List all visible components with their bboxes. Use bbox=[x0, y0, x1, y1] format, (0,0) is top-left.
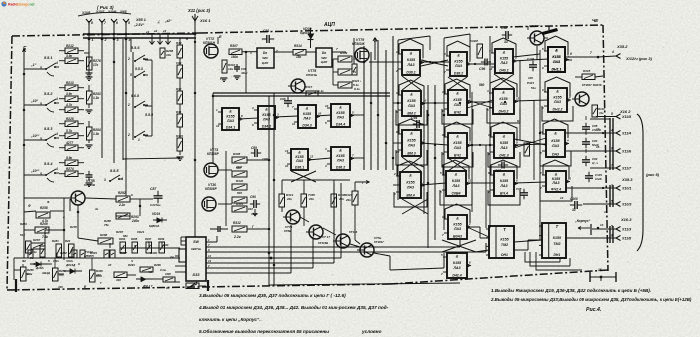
svg-text:75к: 75к bbox=[104, 223, 109, 227]
svg-text:КТ315В: КТ315В bbox=[84, 183, 96, 187]
svg-text:Х/12/ч (рис 3): Х/12/ч (рис 3) bbox=[625, 56, 653, 61]
svg-text:условно: условно bbox=[361, 329, 382, 334]
svg-text:2.2к: 2.2к bbox=[118, 203, 125, 207]
svg-text:ЦАП: ЦАП bbox=[321, 60, 328, 64]
svg-text:4.Вывод 01 микросхем Д34, Д3: 4.Вывод 01 микросхем Д34, Д36, Д38... Д4… bbox=[198, 305, 389, 310]
svg-text:КД503А: КД503А bbox=[149, 224, 159, 228]
svg-text:„10²“: „10²“ bbox=[30, 134, 40, 138]
svg-text:Е: Е bbox=[219, 34, 222, 39]
svg-text:R312: R312 bbox=[233, 221, 241, 225]
svg-text:R269: R269 bbox=[40, 222, 48, 226]
svg-text:11: 11 bbox=[468, 179, 471, 183]
svg-text:&: & bbox=[503, 51, 506, 55]
svg-text:8: 8 bbox=[611, 234, 613, 238]
svg-text:17к: 17к bbox=[93, 63, 99, 67]
svg-text:С87: С87 bbox=[150, 187, 157, 191]
svg-text:150к: 150к bbox=[231, 55, 238, 59]
svg-text:К155: К155 bbox=[407, 99, 416, 103]
svg-text:VТ 17: VТ 17 bbox=[322, 235, 330, 239]
svg-text:ТМ2: ТМ2 bbox=[553, 242, 560, 246]
svg-text:R307: R307 bbox=[120, 251, 127, 255]
svg-text:D34.4: D34.4 bbox=[336, 122, 345, 126]
svg-text:4: 4 bbox=[422, 180, 425, 184]
svg-text:К155: К155 bbox=[453, 98, 462, 102]
svg-text:33: 33 bbox=[572, 208, 576, 212]
svg-text:DH1: DH1 bbox=[553, 253, 560, 257]
svg-text:7: 7 bbox=[590, 51, 592, 55]
svg-text:12: 12 bbox=[310, 155, 314, 159]
svg-text:33: 33 bbox=[504, 40, 508, 44]
svg-text:2: 2 bbox=[468, 141, 471, 145]
svg-text:к2: к2 bbox=[154, 29, 158, 33]
svg-text:R340: R340 bbox=[236, 179, 244, 183]
svg-text:R270: R270 bbox=[70, 225, 77, 229]
svg-text:Х11/7: Х11/7 bbox=[621, 167, 632, 171]
svg-text:D38.2: D38.2 bbox=[454, 71, 463, 75]
svg-text:„Корпус“: „Корпус“ bbox=[574, 219, 591, 223]
svg-text:Х10/3: Х10/3 bbox=[621, 203, 631, 207]
svg-text:6: 6 bbox=[570, 52, 572, 56]
svg-text:&: & bbox=[265, 108, 268, 112]
svg-text:Х11/8: Х11/8 bbox=[621, 237, 631, 241]
svg-text:С98: С98 bbox=[501, 26, 507, 30]
svg-text:К155: К155 bbox=[500, 57, 509, 61]
svg-text:5.5.1: 5.5.1 bbox=[44, 56, 52, 60]
svg-text:0.047мк: 0.047мк bbox=[150, 203, 161, 207]
svg-text:С90: С90 bbox=[250, 195, 256, 199]
svg-text:R315: R315 bbox=[583, 69, 591, 73]
svg-text:R212: R212 bbox=[66, 44, 74, 48]
svg-text:R274: R274 bbox=[66, 167, 74, 171]
svg-text:910: 910 bbox=[248, 207, 253, 211]
svg-text:DН2.2: DН2.2 bbox=[553, 107, 563, 111]
svg-text:31к: 31к bbox=[599, 111, 604, 115]
svg-text:4: 4 bbox=[324, 164, 327, 168]
svg-text:1.3к: 1.3к bbox=[93, 132, 99, 136]
svg-text:ДМ.1 Г: ДМ.1 Г bbox=[142, 284, 153, 288]
svg-text:20к: 20к bbox=[338, 197, 344, 201]
svg-text:КП305Р: КП305Р bbox=[205, 187, 218, 191]
svg-text:ЛА3: ЛА3 bbox=[336, 158, 344, 162]
svg-text:3.9с: 3.9с bbox=[66, 92, 72, 96]
svg-text:R323: R323 bbox=[345, 193, 353, 197]
svg-text:R299: R299 bbox=[158, 237, 165, 241]
svg-text:ФЧ2.4: ФЧ2.4 bbox=[551, 187, 561, 191]
svg-text:R305: R305 bbox=[233, 152, 241, 156]
svg-text:UВ0ТЗв: UВ0ТЗв bbox=[191, 247, 201, 251]
svg-text:ВМ 3: ВМ 3 bbox=[407, 151, 415, 155]
svg-text:510: 510 bbox=[20, 233, 25, 237]
svg-text:Х16 2: Х16 2 bbox=[619, 109, 631, 114]
svg-text:С96: С96 bbox=[479, 67, 485, 71]
svg-text:16: 16 bbox=[598, 268, 602, 272]
svg-text:10: 10 bbox=[604, 210, 608, 214]
svg-text:ЛА3: ЛА3 bbox=[453, 146, 461, 150]
svg-text:R307: R307 bbox=[230, 44, 238, 48]
svg-text:ЛА3: ЛА3 bbox=[499, 184, 507, 188]
svg-text:3.9к: 3.9к bbox=[66, 54, 72, 58]
svg-text:R317: R317 bbox=[305, 85, 313, 89]
svg-text:КТ361Г R0216: КТ361Г R0216 bbox=[582, 83, 602, 87]
svg-text:2(...ч: 2(...ч bbox=[591, 161, 598, 165]
svg-text:R19: R19 bbox=[176, 41, 182, 45]
svg-text:R288: R288 bbox=[100, 233, 108, 237]
svg-text:D34.1: D34.1 bbox=[226, 125, 235, 129]
svg-text:„1“: „1“ bbox=[30, 63, 37, 67]
svg-text:VТ315Г: VТ315Г bbox=[529, 24, 540, 28]
svg-text:ЛА3: ЛА3 bbox=[551, 181, 559, 185]
svg-text:С94: С94 bbox=[411, 116, 417, 120]
svg-text:ЛА3: ЛА3 bbox=[453, 227, 461, 231]
svg-text:„10³“: „10³“ bbox=[30, 169, 40, 173]
svg-text:Ф2: Ф2 bbox=[22, 259, 26, 263]
svg-text:&: & bbox=[229, 110, 232, 114]
svg-text:D36.2: D36.2 bbox=[336, 165, 345, 169]
svg-text:560: 560 bbox=[479, 83, 485, 87]
svg-text:VD19: VD19 bbox=[152, 212, 160, 216]
svg-text:&: & bbox=[410, 93, 413, 97]
svg-text:4.7к: 4.7к bbox=[65, 103, 72, 107]
svg-text:SW: SW bbox=[193, 240, 199, 244]
svg-text:R213: R213 bbox=[66, 81, 74, 85]
svg-text:15с: 15с bbox=[296, 55, 302, 59]
svg-text:1: 1 bbox=[138, 138, 140, 142]
svg-text:КП301Б: КП301Б bbox=[306, 73, 317, 77]
svg-text:Х10/1: Х10/1 bbox=[621, 187, 631, 191]
svg-text:R314: R314 bbox=[294, 44, 302, 48]
svg-text:К155: К155 bbox=[499, 97, 508, 101]
svg-text:D41.3: D41.3 bbox=[499, 153, 508, 157]
svg-text:4: 4 bbox=[55, 167, 58, 171]
svg-text:&: & bbox=[456, 92, 459, 96]
svg-text:&: & bbox=[502, 91, 505, 95]
svg-text:5: 5 bbox=[130, 73, 132, 77]
svg-text:ЛА3: ЛА3 bbox=[552, 60, 560, 64]
svg-text:ЧИС: ЧИС bbox=[262, 56, 269, 60]
svg-text:В0Н3: В0Н3 bbox=[453, 234, 462, 238]
svg-text:Х11/3: Х11/3 bbox=[621, 228, 631, 232]
svg-text:Р321: Р321 bbox=[527, 81, 534, 85]
svg-text:ключить к цепи „Корпус“.: ключить к цепи „Корпус“. bbox=[199, 317, 261, 322]
svg-text:33: 33 bbox=[414, 128, 418, 132]
svg-text:С96: С96 bbox=[280, 97, 286, 101]
svg-text:&: & bbox=[503, 135, 506, 139]
svg-text:ВМ 2: ВМ 2 bbox=[407, 111, 415, 115]
svg-text:15: 15 bbox=[596, 145, 600, 149]
svg-text:R321 •: R321 • bbox=[352, 79, 361, 83]
svg-text:20к: 20к bbox=[308, 197, 314, 201]
svg-text:2: 2 bbox=[127, 57, 130, 61]
svg-text:ЛА3: ЛА3 bbox=[407, 104, 415, 108]
svg-text:D34.2: D34.2 bbox=[262, 124, 271, 128]
svg-text:&: & bbox=[503, 173, 506, 177]
svg-text:4277: 4277 bbox=[65, 141, 73, 145]
svg-text:51к: 51к bbox=[531, 86, 536, 90]
svg-text:13н: 13н bbox=[228, 67, 233, 71]
svg-text:5: 5 bbox=[611, 225, 613, 229]
svg-text:130s: 130s bbox=[53, 259, 59, 263]
svg-text:R290: R290 bbox=[119, 237, 126, 241]
svg-text:&: & bbox=[410, 52, 413, 56]
svg-text:к1: к1 bbox=[146, 30, 150, 34]
svg-text:ЛА3: ЛА3 bbox=[551, 144, 559, 148]
svg-text:R267: R267 bbox=[33, 238, 41, 242]
svg-text:„к2“: „к2“ bbox=[164, 19, 172, 23]
svg-text:&: & bbox=[306, 107, 309, 111]
svg-text:С95: С95 bbox=[516, 187, 522, 191]
svg-text:R30: R30 bbox=[176, 87, 182, 91]
svg-text:R252: R252 bbox=[60, 251, 67, 255]
svg-text:5.5.4: 5.5.4 bbox=[44, 162, 53, 166]
svg-text:ЛА3: ЛА3 bbox=[302, 116, 310, 120]
svg-text:R349: R349 bbox=[340, 51, 348, 55]
svg-text:С84: С84 bbox=[592, 139, 598, 143]
svg-text:К155: К155 bbox=[500, 237, 509, 241]
svg-text:Рис.4.: Рис.4. bbox=[586, 307, 601, 313]
svg-text:Х11/6: Х11/6 bbox=[621, 150, 632, 154]
svg-text:20к: 20к bbox=[286, 197, 292, 201]
svg-text:4400: 4400 bbox=[164, 272, 171, 276]
svg-text:„2.5V“: „2.5V“ bbox=[133, 23, 145, 27]
svg-text:D33: D33 bbox=[193, 273, 201, 277]
svg-text:ЛА3: ЛА3 bbox=[226, 119, 234, 123]
svg-text:R292: R292 bbox=[118, 191, 126, 195]
svg-text:1.3с: 1.3с bbox=[93, 96, 99, 100]
svg-text:.net: .net bbox=[29, 3, 36, 7]
svg-text:5: 5 bbox=[611, 112, 613, 116]
svg-text:Х35.2: Х35.2 bbox=[616, 44, 628, 49]
svg-text:D42.4: D42.4 bbox=[452, 273, 461, 277]
svg-text:1: 1 bbox=[611, 184, 613, 188]
svg-text:DН1.1: DН1.1 bbox=[552, 67, 562, 71]
svg-text:С89: С89 bbox=[251, 146, 257, 150]
svg-text:Dв: Dв bbox=[263, 51, 267, 55]
svg-text:9.1к: 9.1к bbox=[354, 87, 360, 91]
svg-text:13: 13 bbox=[208, 259, 212, 263]
svg-text:1.Выводы Rмикросхем Д19, Д36-: 1.Выводы Rмикросхем Д19, Д36-Д38, Д42 по… bbox=[491, 288, 651, 293]
svg-text:5.5.3: 5.5.3 bbox=[44, 127, 53, 131]
svg-text:R31: R31 bbox=[176, 110, 182, 114]
svg-text:КЗЗМ: КЗЗМ bbox=[470, 39, 478, 43]
svg-text:К155: К155 bbox=[454, 60, 463, 64]
svg-text:240к: 240к bbox=[131, 219, 139, 223]
svg-text:в: в bbox=[63, 215, 65, 219]
svg-text:С93: С93 bbox=[176, 61, 182, 65]
svg-text:R309: R309 bbox=[150, 251, 157, 255]
svg-text:С1м: С1м bbox=[160, 268, 167, 272]
svg-text:R263: R263 bbox=[20, 222, 27, 226]
svg-text:VD21: VD21 bbox=[137, 230, 145, 234]
svg-text:Х11/5: Х11/5 bbox=[621, 115, 632, 119]
svg-text:Т: Т bbox=[556, 224, 559, 229]
svg-text:2: 2 bbox=[207, 264, 210, 268]
svg-text:ЛА3: ЛА3 bbox=[451, 184, 459, 188]
svg-text:5.Обозначение выводов перек: 5.Обозначение выводов переключателя 55 п… bbox=[199, 328, 329, 334]
svg-text:D40.1: D40.1 bbox=[499, 68, 508, 72]
svg-text:10н: 10н bbox=[166, 53, 171, 57]
svg-text:Д814Д: Д814Д bbox=[65, 263, 76, 267]
svg-text:500: 500 bbox=[236, 166, 241, 170]
svg-text:2: 2 bbox=[127, 103, 130, 107]
svg-text:Г: Г bbox=[100, 281, 102, 285]
svg-text:К155: К155 bbox=[453, 261, 462, 265]
svg-text:DН3: DН3 bbox=[552, 152, 559, 156]
svg-text:Dв: Dв bbox=[322, 51, 326, 55]
svg-text:4: 4 bbox=[611, 50, 614, 54]
svg-text:&: & bbox=[298, 151, 301, 155]
svg-text:14: 14 bbox=[600, 223, 604, 227]
svg-text:К155: К155 bbox=[453, 223, 462, 227]
svg-text:ВЧ2: ВЧ2 bbox=[454, 110, 461, 114]
svg-text:D34.3: D34.3 bbox=[302, 123, 311, 127]
svg-text:11: 11 bbox=[208, 254, 211, 258]
svg-text:&: & bbox=[339, 149, 342, 153]
svg-text:С82: С82 bbox=[592, 157, 598, 161]
svg-text:КТ6В: КТ6В bbox=[284, 229, 291, 233]
svg-text:„10“: „10“ bbox=[30, 99, 38, 103]
svg-text:Х10/8: Х10/8 bbox=[81, 11, 91, 15]
svg-text:2.Выводы 05-микросхемы Д33;Выв: 2.Выводы 05-микросхемы Д33;Выводы 09 мик… bbox=[490, 297, 692, 302]
svg-text:12: 12 bbox=[489, 67, 493, 71]
svg-text:К155: К155 bbox=[453, 141, 462, 145]
svg-text:Х10/7: Х10/7 bbox=[95, 10, 105, 14]
svg-text:ЦАП: ЦАП bbox=[262, 61, 269, 65]
svg-text:4: 4 bbox=[55, 97, 58, 101]
svg-text:С103: С103 bbox=[595, 173, 602, 177]
svg-text:К155: К155 bbox=[551, 139, 560, 143]
svg-text:10нФ: 10нФ bbox=[595, 177, 602, 181]
svg-text:(рис 5): (рис 5) bbox=[646, 172, 660, 177]
svg-text:ЛА3: ЛА3 bbox=[262, 117, 270, 121]
svg-text:2: 2 bbox=[539, 171, 542, 175]
svg-text:4: 4 bbox=[566, 139, 569, 143]
svg-text:2: 2 bbox=[127, 133, 130, 137]
svg-text:Х9/5: Х9/5 bbox=[119, 10, 127, 14]
svg-text:КТ361Г: КТ361Г bbox=[374, 240, 384, 244]
svg-text:11: 11 bbox=[292, 122, 295, 126]
svg-text:10: 10 bbox=[423, 99, 427, 103]
svg-text:4к: 4к bbox=[94, 207, 99, 211]
svg-text:К155: К155 bbox=[553, 236, 562, 240]
svg-text:ЛА3: ЛА3 bbox=[336, 115, 344, 119]
svg-text:D36.1: D36.1 bbox=[295, 165, 304, 169]
svg-text:5.7к: 5.7к bbox=[66, 129, 72, 133]
svg-text:⊥: ⊥ bbox=[157, 20, 160, 24]
svg-text:ВМ.4: ВМ.4 bbox=[406, 193, 414, 197]
svg-text:20к: 20к bbox=[345, 198, 351, 202]
svg-text:&: & bbox=[455, 173, 458, 177]
svg-text:д: д bbox=[78, 262, 80, 266]
svg-text:ЛА3: ЛА3 bbox=[407, 143, 415, 147]
svg-text:Х11 (рис 3): Х11 (рис 3) bbox=[187, 8, 211, 13]
svg-text:8: 8 bbox=[91, 21, 93, 25]
svg-text:К155: К155 bbox=[407, 58, 416, 62]
svg-text:АЦП: АЦП bbox=[323, 22, 335, 28]
svg-text:R228: R228 bbox=[66, 117, 74, 121]
svg-text:12: 12 bbox=[516, 97, 520, 101]
svg-text:Х55 1: Х55 1 bbox=[135, 18, 146, 22]
svg-text:ЛА3: ЛА3 bbox=[406, 185, 414, 189]
svg-text:&: & bbox=[410, 132, 413, 136]
svg-text:R20: R20 bbox=[65, 239, 71, 243]
svg-text:К155: К155 bbox=[452, 179, 461, 183]
svg-text:к3: к3 bbox=[163, 29, 167, 33]
svg-text:R341: R341 bbox=[236, 202, 244, 206]
svg-text:&: & bbox=[555, 173, 558, 177]
svg-text:С97: С97 bbox=[495, 169, 501, 173]
svg-text:R297: R297 bbox=[145, 237, 152, 241]
svg-text:Х16.3: Х16.3 bbox=[620, 217, 632, 222]
svg-text:500: 500 bbox=[237, 191, 242, 195]
svg-text:5.5.6: 5.5.6 bbox=[131, 46, 140, 50]
svg-text:АВ4Д: АВ4Д bbox=[41, 271, 51, 275]
svg-text:5.6.8: 5.6.8 bbox=[131, 94, 139, 98]
svg-text:10: 10 bbox=[108, 263, 112, 267]
svg-text:К155: К155 bbox=[552, 55, 561, 59]
svg-text:ЛА3: ЛА3 bbox=[406, 63, 414, 67]
svg-text:Т: Т bbox=[503, 227, 506, 232]
svg-text:С100: С100 bbox=[570, 197, 578, 201]
svg-text:&: & bbox=[456, 217, 459, 221]
svg-text:&: & bbox=[554, 132, 557, 136]
svg-text:R258: R258 bbox=[40, 206, 48, 210]
svg-text:К155: К155 bbox=[500, 141, 509, 145]
svg-text:К155: К155 bbox=[407, 138, 416, 142]
svg-text:ВЧ.4: ВЧ.4 bbox=[500, 191, 508, 195]
svg-text:430: 430 bbox=[115, 278, 121, 282]
svg-text:К155: К155 bbox=[500, 179, 509, 183]
svg-text:30нс: 30нс bbox=[241, 71, 248, 75]
svg-text:ЛА3: ЛА3 bbox=[454, 64, 462, 68]
svg-text:ЛА3: ЛА3 bbox=[499, 61, 507, 65]
svg-text:2.2к: 2.2к bbox=[233, 235, 241, 239]
svg-text:DH0.2: DH0.2 bbox=[499, 109, 509, 113]
svg-text:5.9к: 5.9к bbox=[66, 156, 72, 160]
svg-text:ЛА3: ЛА3 bbox=[452, 266, 460, 270]
svg-text:4: 4 bbox=[120, 177, 123, 181]
svg-text:4: 4 bbox=[55, 61, 58, 65]
svg-text:5: 5 bbox=[611, 200, 613, 204]
svg-text:D38.1: D38.1 bbox=[406, 70, 415, 74]
svg-text:100: 100 bbox=[528, 76, 533, 80]
svg-text:КП305Р: КП305Р bbox=[207, 152, 220, 156]
svg-text:Storage: Storage bbox=[17, 3, 30, 7]
svg-text:R294: R294 bbox=[128, 263, 135, 267]
svg-text:4: 4 bbox=[251, 106, 254, 110]
svg-text:&: & bbox=[556, 90, 559, 94]
svg-text:ТМ2: ТМ2 bbox=[501, 243, 508, 247]
svg-text:С91: С91 bbox=[263, 29, 269, 33]
svg-text:Гв: Гв bbox=[30, 256, 34, 260]
svg-text:2: 2 bbox=[539, 186, 542, 190]
svg-text:КТ316: КТ316 bbox=[349, 230, 358, 234]
svg-text:ВЧ1: ВЧ1 bbox=[454, 153, 461, 157]
svg-text:С94: С94 bbox=[163, 243, 169, 247]
svg-text:3.Выводы 05 микросхем Д35, Д: 3.Выводы 05 микросхем Д35, Д37 подключит… bbox=[199, 293, 346, 298]
svg-text:R295: R295 bbox=[131, 237, 138, 241]
svg-text:13: 13 bbox=[285, 149, 289, 153]
svg-text:ЛА3: ЛА3 bbox=[499, 146, 507, 150]
svg-text:&: & bbox=[457, 54, 460, 58]
svg-text:6: 6 bbox=[116, 21, 118, 25]
svg-text:2: 2 bbox=[393, 172, 396, 176]
svg-text:К155: К155 bbox=[553, 96, 562, 100]
svg-text:ЧЕ: ЧЕ bbox=[592, 18, 599, 23]
svg-text:13: 13 bbox=[560, 196, 564, 200]
svg-text:Х10/6: Х10/6 bbox=[107, 10, 117, 14]
svg-text:R281: R281 bbox=[52, 239, 59, 243]
svg-text:10: 10 bbox=[325, 104, 329, 108]
